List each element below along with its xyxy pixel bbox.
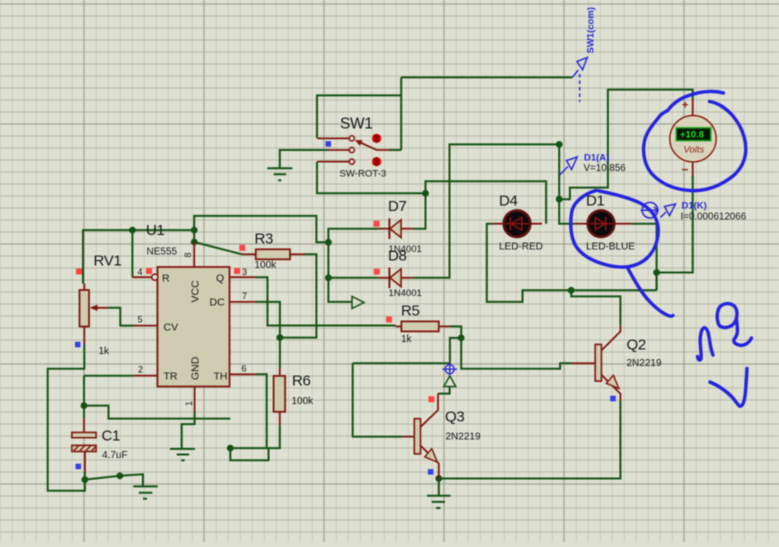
junction Q2 collector <box>568 287 575 294</box>
pin marker R3 <box>239 245 245 251</box>
voltmeter display <box>676 128 710 141</box>
wire R3 right down to junction <box>280 254 317 337</box>
svg-text:−: − <box>682 163 689 177</box>
resistor R3 <box>256 249 290 259</box>
annotation scribble loop <box>717 304 737 328</box>
svg-text:SW1(com): SW1(com) <box>586 7 597 53</box>
terminal arrow right <box>352 297 364 309</box>
junction pin4 rail <box>129 227 136 234</box>
wire D4 cathode to Q2 collector rail <box>487 224 657 302</box>
pin marker RV1 <box>76 269 82 275</box>
wire SW1 middle contact to ground <box>280 150 328 168</box>
wire rail up to meter minus <box>657 176 693 290</box>
pin marker D7 <box>374 221 380 227</box>
svg-text:6: 6 <box>242 364 247 374</box>
junction R5 right <box>458 335 465 342</box>
svg-text:LED-RED: LED-RED <box>499 242 543 253</box>
wire VCC rail RV1 to U1 <box>83 230 194 283</box>
LED D1 LED-BLUE <box>575 193 636 253</box>
svg-text:R6: R6 <box>292 373 311 390</box>
annotation circle around voltmeter <box>644 91 746 190</box>
wire pin7 to junction <box>255 302 280 338</box>
junction D8 D1 <box>556 141 563 148</box>
svg-text:+: + <box>682 100 688 112</box>
pin marker D8 <box>374 269 380 275</box>
wire C1 bottom to dot <box>84 472 86 480</box>
wire Q3 base down <box>353 363 403 436</box>
wire diagonal to ground <box>85 474 143 486</box>
pin marker Q2 emitter blue <box>610 396 616 402</box>
wire Q2 emitter to ground rail <box>439 400 621 478</box>
wire bottom jog <box>230 448 268 460</box>
svg-text:TR: TR <box>164 371 178 383</box>
svg-text:8: 8 <box>183 252 193 257</box>
svg-text:2N2219: 2N2219 <box>446 432 481 443</box>
wire C1 node down <box>83 406 85 419</box>
pin marker R5 <box>386 317 392 323</box>
probes <box>559 58 675 218</box>
diode D8 <box>378 277 413 279</box>
LED D4 <box>492 223 542 225</box>
svg-text:SW1: SW1 <box>340 116 373 133</box>
pin marker Q3 collector <box>428 396 434 402</box>
svg-text:1N4001: 1N4001 <box>389 288 422 299</box>
wire RV1 wiper to pin5 <box>108 308 133 326</box>
svg-text:Q3: Q3 <box>445 409 464 426</box>
junction meter minus <box>653 269 660 276</box>
svg-text:V=10.856: V=10.856 <box>584 163 627 174</box>
svg-text:D1(K): D1(K) <box>682 201 707 212</box>
capacitor C1 <box>72 418 128 472</box>
wire node down to D7 right <box>413 193 425 228</box>
svg-text:R3: R3 <box>255 231 274 248</box>
svg-text:100k: 100k <box>292 396 315 407</box>
svg-text:7: 7 <box>242 291 247 301</box>
svg-text:LED-BLUE: LED-BLUE <box>586 242 635 253</box>
wire rail jog to D7/D8 cathodes <box>194 216 328 242</box>
annotation check <box>710 369 747 407</box>
U1 pin4 inversion bubble <box>152 274 158 280</box>
voltmeter body <box>670 116 716 162</box>
svg-text:I=0.000612066: I=0.000612066 <box>681 212 747 223</box>
svg-text:2N2219: 2N2219 <box>627 358 662 369</box>
transistor Q3 <box>414 419 420 454</box>
wire pin6 TH down <box>256 374 267 448</box>
wire node to crosshair <box>450 338 461 364</box>
wire pin3 to R5 <box>255 277 395 325</box>
annotation tail <box>628 269 673 317</box>
ground SW1 middle <box>267 168 292 180</box>
wire jog to Q2 collector <box>571 290 620 325</box>
wire R5 right corner <box>450 326 461 338</box>
probe D1(K) current <box>642 202 658 218</box>
wire R6 bottom <box>230 425 279 448</box>
resistor R5 <box>396 303 451 346</box>
switch SW1 position dots <box>372 134 381 166</box>
pin marker C1 blue <box>76 464 82 470</box>
svg-text:VCC: VCC <box>190 280 202 303</box>
diode D7 <box>378 228 413 230</box>
RV1 wiper arrow <box>91 307 108 309</box>
transistor Q3 <box>403 394 481 479</box>
wire pin1 to ground <box>182 412 195 449</box>
diode D8 <box>378 248 421 300</box>
wire D1 anode net <box>559 144 575 223</box>
transistor Q2 <box>595 344 601 381</box>
svg-text:4.7uF: 4.7uF <box>102 450 128 461</box>
U1 pin stubs <box>132 242 255 412</box>
pin marker Q3 emitter blue <box>428 469 434 475</box>
wire pin4 <box>131 230 133 277</box>
svg-text:Q: Q <box>216 273 224 285</box>
wire left rail <box>48 345 85 491</box>
probe SW1(com) <box>573 70 579 77</box>
resistor R5 <box>401 321 438 331</box>
wire pin8 junction <box>193 230 195 242</box>
svg-text:D8: D8 <box>388 248 407 265</box>
voltmeter pins <box>692 99 694 176</box>
terminal arrow up <box>444 376 456 387</box>
svg-text:5: 5 <box>138 315 143 325</box>
svg-text:100k: 100k <box>255 260 278 271</box>
resistor R6 <box>274 368 315 425</box>
svg-text:D1(A): D1(A) <box>584 153 609 164</box>
junction pin8 R3 <box>191 239 198 246</box>
probe D1(A) <box>559 167 568 176</box>
wire SW1 bottom contact to node <box>317 162 426 194</box>
junction meter plus <box>556 196 563 203</box>
wire pin2 <box>84 375 134 377</box>
rotary switch SW1 <box>318 116 391 180</box>
svg-text:1k: 1k <box>99 346 111 357</box>
crosshair marker <box>442 362 457 377</box>
svg-text:U1: U1 <box>146 222 165 239</box>
wire Q3 base horizontal <box>353 362 450 364</box>
wire D8 left <box>328 277 378 279</box>
wire junction to R6 <box>279 338 281 368</box>
svg-text:R5: R5 <box>401 303 420 320</box>
ground symbols <box>133 168 450 508</box>
wire to meter plus <box>559 90 693 200</box>
wire D8 right up to D1 net <box>413 144 559 277</box>
resistor R6 <box>274 376 286 412</box>
pin marker SW1 blue <box>326 141 332 147</box>
LED D4 LED-RED <box>492 193 543 253</box>
switch SW1 arm <box>359 142 390 150</box>
wire cathode vertical D8 and terminal <box>328 242 352 302</box>
junction SW1 D7 <box>422 190 429 197</box>
svg-text:Volts: Volts <box>684 145 705 156</box>
wire common to probe SW1(com) <box>401 76 572 78</box>
wire pivot stub green <box>390 149 401 151</box>
svg-text:D4: D4 <box>499 193 518 210</box>
transistor Q2 <box>571 325 662 400</box>
junction C1 top <box>81 402 88 409</box>
annotation scribble A <box>698 328 714 360</box>
wire SW1 top contact to top-left corner <box>317 95 401 138</box>
diode D7 <box>378 198 421 255</box>
ground U1 pin1 <box>170 449 195 460</box>
annotation loop around D1 <box>571 191 658 268</box>
wire node to Q2 base <box>461 338 571 369</box>
svg-text:DC: DC <box>210 297 226 309</box>
wire diagonal to R3 <box>194 242 242 254</box>
hand-drawn annotations <box>571 91 752 406</box>
wire cathode vertical D7 <box>328 229 378 243</box>
wire C1 node jog right <box>84 406 230 419</box>
junction pin7 R6 <box>277 334 284 341</box>
voltmeter <box>670 99 716 177</box>
switch SW1 contact stubs <box>318 138 350 161</box>
svg-text:1: 1 <box>184 401 194 406</box>
svg-text:TH: TH <box>214 371 228 383</box>
junction emitter ground <box>435 475 442 482</box>
junction TH R6 <box>227 445 234 452</box>
wire D1 cathode <box>632 224 657 291</box>
junction D8 cathode <box>325 274 332 281</box>
IC U1 NE555 <box>132 222 255 412</box>
svg-text:4: 4 <box>138 267 143 277</box>
svg-text:R: R <box>162 273 170 285</box>
wire SW1 common vertical <box>400 77 402 150</box>
svg-text:+10.8: +10.8 <box>680 129 704 140</box>
pin marker U1 pin3 <box>234 268 240 274</box>
capacitor C1 <box>72 432 96 437</box>
potentiometer RV1 <box>80 253 122 358</box>
svg-text:1k: 1k <box>401 334 413 345</box>
op-amp U1 body <box>158 267 230 387</box>
svg-text:NE555: NE555 <box>147 247 178 258</box>
pin marker U1 pin4 <box>146 268 152 274</box>
junction D7 cathode <box>325 239 332 246</box>
wire pin2 down to C1 node <box>83 376 85 406</box>
wire terminal to Q3 collector <box>438 387 450 394</box>
junction C1 bottom <box>82 476 89 483</box>
svg-text:RV1: RV1 <box>94 253 122 270</box>
pin marker RV1 blue <box>75 342 81 348</box>
ground emitters <box>427 496 451 508</box>
svg-text:D7: D7 <box>388 198 407 215</box>
svg-text:Q2: Q2 <box>627 337 646 354</box>
svg-text:GND: GND <box>190 356 202 380</box>
svg-text:C1: C1 <box>102 428 121 445</box>
ground C1 <box>133 486 157 498</box>
pin markers <box>76 221 434 402</box>
LED D1 <box>575 223 632 225</box>
wire Q3 emitter ground stub <box>438 479 440 496</box>
wire node up to D4 anode <box>426 181 547 224</box>
svg-text:SW-ROT-3: SW-ROT-3 <box>340 169 387 180</box>
junction ground wire <box>117 472 124 479</box>
switch SW1 contacts <box>349 136 354 141</box>
junction VCC rail <box>191 227 198 234</box>
resistor R3 <box>242 231 304 272</box>
svg-text:CV: CV <box>164 322 179 334</box>
resistor RV1 body <box>80 290 90 327</box>
svg-text:2: 2 <box>138 365 143 375</box>
svg-text:3: 3 <box>242 267 247 277</box>
